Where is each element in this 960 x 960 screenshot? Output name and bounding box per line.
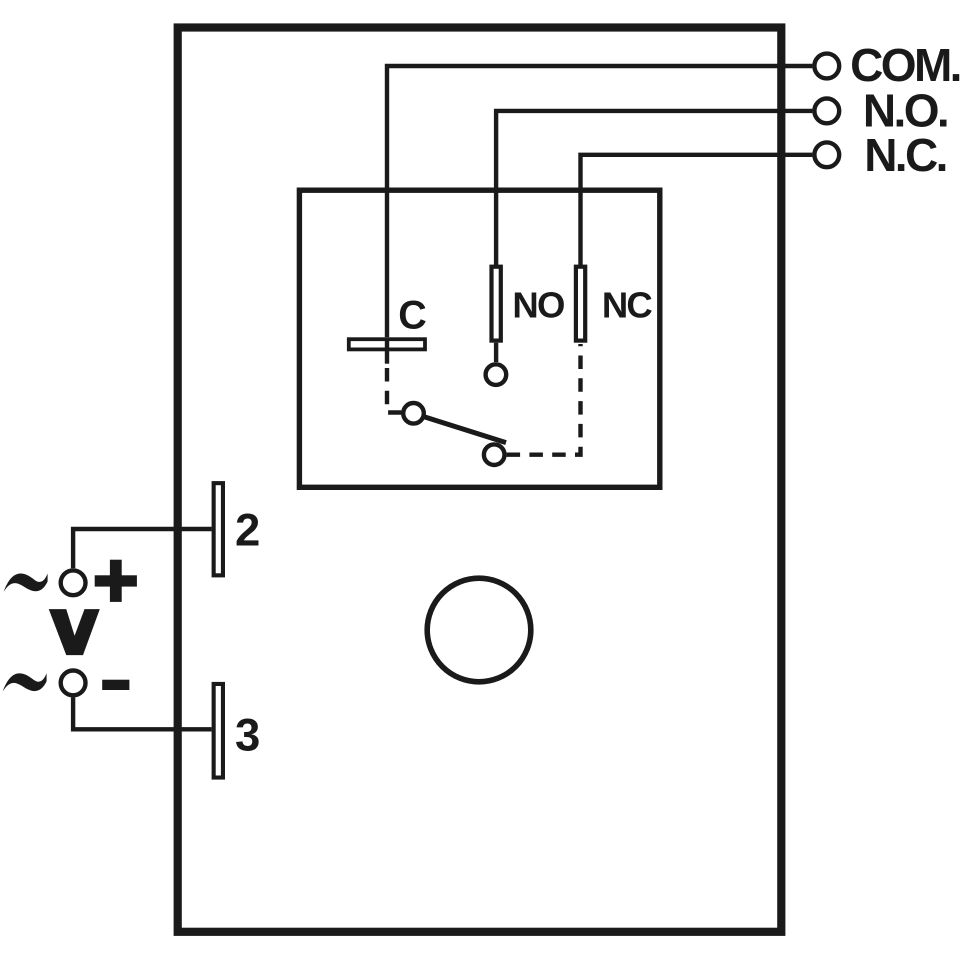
svg-text:COM.: COM.: [850, 39, 960, 91]
svg-text:NO: NO: [512, 285, 564, 326]
svg-text:3: 3: [235, 709, 260, 760]
svg-text:NC: NC: [602, 285, 653, 326]
svg-text:N.C.: N.C.: [864, 129, 946, 181]
svg-text:C: C: [398, 294, 427, 338]
svg-text:2: 2: [235, 504, 260, 555]
